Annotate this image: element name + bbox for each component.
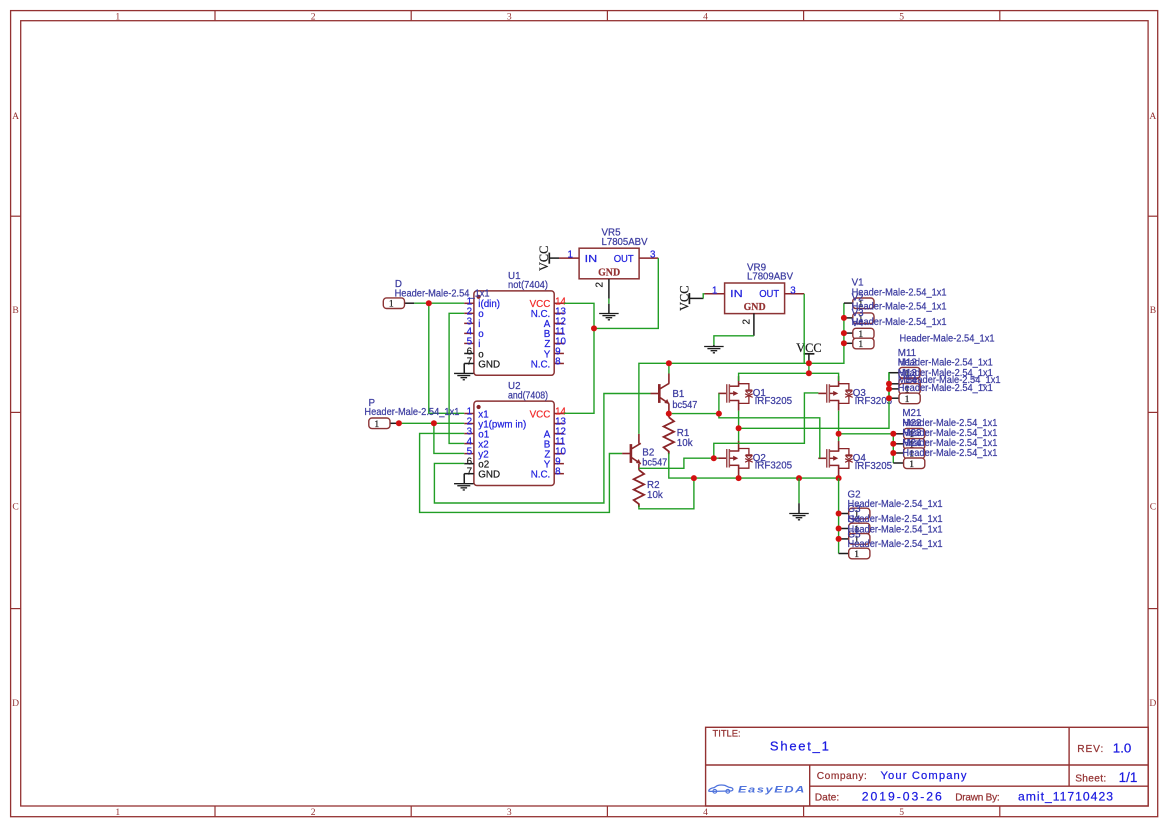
wire net G2 stack (838, 478, 840, 553)
svg-text:A: A (1149, 111, 1156, 122)
svg-text:GND: GND (478, 469, 500, 480)
wire net M1: Q1 source / Q2 drain to M11 headers (738, 411, 740, 441)
svg-text:C: C (1150, 501, 1156, 512)
svg-text:TITLE:: TITLE: (713, 728, 741, 739)
U2 pin 4 (464, 443, 474, 445)
wire net V1 stack (844, 302, 853, 304)
svg-text:1: 1 (909, 459, 914, 470)
svg-text:Sheet:: Sheet: (1075, 774, 1106, 785)
svg-text:IN: IN (585, 254, 598, 265)
svg-text:Header-Male-2.54_1x1: Header-Male-2.54_1x1 (902, 448, 997, 459)
U2 pin 6 (464, 463, 474, 465)
svg-text:1.0: 1.0 (1113, 740, 1132, 755)
B2 collector pin (638, 434, 640, 444)
wire VCC rail (9V) (639, 303, 844, 434)
EasyEDA logo (709, 784, 806, 794)
svg-text:V4: V4 (852, 318, 865, 329)
wire net P: header P to U2 pin2 and pin5 (390, 422, 399, 424)
wire net o2: U2 pin6 to B1 base (434, 394, 650, 504)
svg-text:VCC: VCC (530, 409, 551, 420)
svg-text:IN: IN (730, 289, 743, 300)
wire VCC to VR5 pin 1 (549, 257, 559, 259)
svg-text:D: D (1149, 698, 1156, 709)
junction drain rail (806, 370, 812, 376)
U1 pin 3 (464, 322, 474, 324)
B2 emitter pin (638, 464, 640, 470)
svg-text:B: B (12, 305, 18, 316)
svg-text:Header-Male-2.54_1x1: Header-Male-2.54_1x1 (898, 383, 993, 394)
svg-text:1: 1 (115, 807, 120, 818)
svg-text:Header-Male-2.54_1x1: Header-Male-2.54_1x1 (364, 407, 459, 418)
header P box (369, 418, 390, 429)
svg-text:2: 2 (742, 319, 753, 324)
svg-text:1: 1 (905, 394, 910, 405)
junction net B2e (711, 455, 717, 461)
VR9 pin 2 lead (753, 313, 755, 336)
svg-text:5: 5 (899, 11, 904, 22)
svg-text:Company:: Company: (817, 771, 867, 782)
B1 collector pin (668, 374, 670, 384)
transistor Q1 IRF3205 N-MOSFET (726, 384, 728, 403)
junctions M21 stack (890, 431, 896, 437)
svg-text:10k: 10k (647, 490, 663, 501)
ground symbol at U1 pin 7 (463, 363, 465, 373)
svg-text:1: 1 (389, 299, 394, 310)
svg-text:Header-Male-2.54_1x1: Header-Male-2.54_1x1 (848, 514, 943, 525)
wire VR5 pin2 to ground (608, 299, 610, 304)
wire U1 pin2 to U2 pin4 (449, 313, 464, 443)
svg-text:IRF3205: IRF3205 (755, 396, 793, 407)
svg-text:1: 1 (115, 11, 120, 22)
U2 pin 5 (464, 453, 474, 455)
svg-text:2: 2 (311, 807, 316, 818)
U2 pin 2 (464, 423, 474, 425)
wire VCC to VR9 pin 1 (689, 297, 703, 299)
svg-text:1: 1 (712, 285, 717, 296)
svg-text:L7809ABV: L7809ABV (747, 272, 793, 283)
svg-text:3: 3 (790, 285, 796, 296)
title block outline (706, 727, 1149, 806)
U1 pin 8 (554, 362, 564, 364)
svg-text:not(7404): not(7404) (508, 280, 548, 291)
U1 pin 10 (554, 342, 564, 344)
junction net M2 (836, 431, 842, 437)
svg-text:and(7408): and(7408) (508, 390, 548, 401)
svg-text:4: 4 (703, 807, 708, 818)
B1 emitter pin (668, 404, 670, 414)
junctions on net P (396, 420, 402, 426)
junction on net D (426, 300, 432, 306)
transistor Q3 IRF3205 N-MOSFET (826, 384, 828, 403)
junctions V1 stack (841, 315, 847, 321)
svg-text:IRF3205: IRF3205 (755, 461, 793, 472)
wire R2 bottom to source rail (639, 478, 694, 509)
wire 5V net: U1 pin14, U2 pin14, VR5 OUT (564, 303, 594, 413)
svg-text:1: 1 (854, 549, 859, 560)
svg-text:bc547: bc547 (642, 457, 667, 468)
U1 pin 2 (464, 312, 474, 314)
svg-text:GND: GND (744, 302, 766, 313)
junctions source rail (691, 475, 697, 481)
junctions G2 stack (836, 511, 842, 517)
svg-text:L7805ABV: L7805ABV (602, 237, 648, 248)
svg-text:5: 5 (899, 807, 904, 818)
svg-text:B1: B1 (672, 389, 684, 400)
headers V1..V5 boxes (853, 298, 874, 309)
U1 pin 6 (464, 352, 474, 354)
headers M11..M14 boxes (899, 367, 920, 378)
svg-text:IRF3205: IRF3205 (855, 461, 893, 472)
svg-text:OUT: OUT (759, 289, 779, 300)
svg-text:1: 1 (568, 250, 573, 261)
VR9 pin 3 stub and number (785, 293, 805, 295)
svg-text:Header-Male-2.54_1x1: Header-Male-2.54_1x1 (852, 317, 947, 328)
svg-text:Header-Male-2.54_1x1: Header-Male-2.54_1x1 (848, 525, 943, 536)
U2 pin 12 (554, 433, 564, 435)
ground symbol below VR9 (713, 345, 715, 346)
svg-text:7: 7 (467, 356, 472, 367)
svg-text:Header-Male-2.54_1x1: Header-Male-2.54_1x1 (852, 288, 947, 299)
svg-text:Header-Male-2.54_1x1: Header-Male-2.54_1x1 (852, 302, 947, 313)
svg-text:Drawn By:: Drawn By: (955, 792, 1000, 803)
svg-text:EasyEDA: EasyEDA (738, 784, 806, 794)
resistor R2 10k (634, 470, 644, 507)
svg-text:REV:: REV: (1077, 744, 1103, 755)
svg-text:4: 4 (703, 11, 708, 22)
transistor Q4 IRF3205 N-MOSFET (826, 449, 828, 468)
svg-text:A: A (12, 111, 19, 122)
U2 pin 14 (554, 413, 564, 415)
VR5 pin 3 stub and number (639, 257, 658, 259)
U2 pin 13 (554, 423, 564, 425)
svg-text:Date:: Date: (815, 792, 839, 803)
svg-text:VCC: VCC (796, 341, 821, 355)
header D box (383, 298, 404, 309)
svg-text:10k: 10k (677, 438, 693, 449)
svg-text:GND: GND (478, 359, 500, 370)
svg-text:7: 7 (467, 467, 472, 478)
wire net B2 emitter: R2 top, Q2 gate, Q3 gate (639, 458, 719, 468)
svg-text:1/1: 1/1 (1119, 770, 1138, 785)
U1 pin 5 (464, 342, 474, 344)
svg-text:3: 3 (507, 11, 512, 22)
U1 pin 14 (554, 302, 564, 304)
svg-text:2: 2 (311, 11, 316, 22)
U1 pin 11 (554, 332, 564, 334)
svg-text:1: 1 (858, 339, 863, 350)
wire net D: header D to U1 pin1 and U2 pin1 (405, 302, 415, 304)
transistor B1 bc547 (658, 384, 661, 403)
wire drain rail: Q1 and Q3 drains (739, 373, 839, 381)
U1 pin 12 (554, 322, 564, 324)
VR9 pin 1 stub and number (705, 293, 725, 295)
U2 pin 11 (554, 443, 564, 445)
junctions M11 stack (886, 381, 892, 387)
transistor Q2 IRF3205 N-MOSFET (726, 449, 728, 468)
svg-text:C: C (12, 501, 18, 512)
svg-text:GND: GND (598, 267, 620, 278)
svg-text:bc547: bc547 (672, 400, 697, 411)
svg-text:1: 1 (374, 419, 379, 430)
U1 pin 7 (464, 362, 474, 364)
svg-text:2019-03-26: 2019-03-26 (862, 789, 942, 803)
wire VR9 pin2 to ground (714, 336, 754, 345)
wire net o1: U2 pin3 to B2 base (420, 433, 622, 512)
voltage regulator VR9 L7809ABV body (725, 283, 785, 314)
IC U2 and(7408) body (474, 401, 554, 485)
wire net B1 emitter: R1 top, Q1 gate, Q4 gate (672, 413, 719, 415)
junctions on VCC rail (666, 360, 672, 366)
wire net M21 stack (892, 434, 894, 463)
svg-text:8: 8 (555, 467, 561, 478)
junctions net B1e (666, 411, 672, 417)
svg-text:B: B (1150, 305, 1156, 316)
U2 pin 9 (554, 463, 564, 465)
svg-text:Header-Male-2.54_1x1: Header-Male-2.54_1x1 (900, 334, 995, 345)
U2 pin 8 (554, 473, 564, 475)
wire net M2: Q3 source / Q4 drain to M21 headers (838, 411, 840, 441)
ground symbol below VR5 (599, 313, 619, 315)
svg-text:N.C.: N.C. (531, 469, 551, 480)
svg-text:D: D (12, 698, 19, 709)
svg-text:3: 3 (507, 807, 512, 818)
svg-text:8: 8 (555, 356, 561, 367)
IC U1 not(7404) body (474, 291, 554, 375)
svg-text:Header-Male-2.54_1x1: Header-Male-2.54_1x1 (848, 539, 943, 550)
wire net M11 stack (889, 372, 899, 374)
U1 pin 9 (554, 352, 564, 354)
title block texts (713, 728, 1138, 804)
ground symbol at U2 pin 7 (463, 474, 465, 484)
svg-text:amit_11710423: amit_11710423 (1018, 790, 1113, 804)
U2 pin 10 (554, 453, 564, 455)
U2 pin 7 (464, 473, 474, 475)
svg-text:Header-Male-2.54_1x1: Header-Male-2.54_1x1 (848, 499, 943, 510)
svg-text:Header-Male-2.54_1x1: Header-Male-2.54_1x1 (395, 288, 490, 299)
transistor B2 bc547 (630, 444, 633, 463)
svg-text:OUT: OUT (614, 254, 634, 265)
VR5 pin 2 lead (608, 279, 610, 299)
ground symbol below bridge (789, 513, 809, 515)
U2 pin 3 (464, 433, 474, 435)
svg-text:Your Company: Your Company (881, 770, 967, 782)
junction net M1 (736, 425, 742, 431)
voltage regulator VR5 L7805ABV body (579, 248, 639, 279)
headers M21..M24 boxes (904, 428, 925, 439)
wire VR9 OUT down to VCC rail (803, 294, 805, 364)
resistor R1 10k (668, 414, 670, 418)
svg-text:3: 3 (650, 250, 656, 261)
headers G2..G5 boxes (849, 508, 870, 519)
svg-text:2: 2 (594, 282, 605, 287)
U2 pin 1 (464, 413, 474, 415)
U1 pin 4 (464, 332, 474, 334)
junction 5V net (591, 325, 597, 331)
U1 pin 13 (554, 312, 564, 314)
wire ground stem below bridge (798, 478, 800, 503)
wire source/ground rail (669, 453, 839, 478)
VR5 pin 1 stub and number (559, 257, 579, 259)
U1 pin 1 (464, 302, 474, 304)
svg-text:N.C.: N.C. (531, 359, 551, 370)
